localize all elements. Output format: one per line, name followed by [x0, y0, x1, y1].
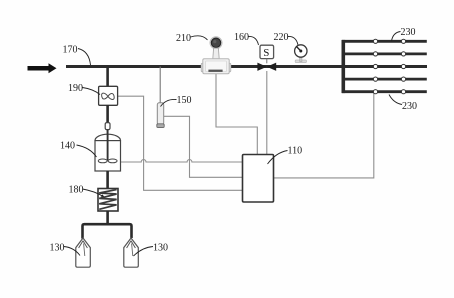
valve 160 body [257, 63, 276, 71]
manifold split to flasks [83, 224, 132, 238]
wire coil to manifold [106, 211, 109, 224]
svg-text:230: 230 [402, 101, 417, 112]
wire signal vessel140 to controller with hops [121, 160, 242, 162]
label 190 [68, 83, 100, 95]
wire pipe drop to probe 150 [159, 67, 161, 104]
svg-text:180: 180 [69, 185, 84, 196]
inlet flow arrow [28, 63, 57, 73]
wire valve190 to connector [106, 105, 109, 123]
svg-text:160: 160 [234, 32, 249, 43]
wire main pipe 170 [66, 65, 427, 68]
label 230 bottom [389, 95, 417, 113]
manifold header 230 [341, 40, 345, 93]
svg-text:130: 130 [50, 243, 65, 254]
wire signal valve160 to controller [266, 71, 268, 154]
nozzle nodes column 2 [401, 39, 405, 94]
label 180 [69, 185, 105, 198]
solenoid box S of valve 160 [260, 45, 274, 63]
valve 190 [99, 86, 118, 105]
vessel 140 with stirrer [95, 130, 121, 171]
wire pipe to valve 190 [106, 67, 109, 88]
branch pipe 3 [342, 65, 427, 68]
label 110 [268, 146, 303, 165]
label 160 [234, 32, 259, 45]
branch pipe 4 [342, 78, 427, 81]
connector nozzle above vessel [105, 123, 110, 130]
svg-text:150: 150 [177, 95, 192, 106]
svg-text:220: 220 [274, 32, 289, 43]
wire signal controller110 to manifold [274, 93, 374, 178]
flow meter 210 [201, 37, 231, 74]
controller 110 [243, 155, 274, 203]
label 210 [176, 33, 208, 44]
branch pipe 1 [342, 40, 427, 43]
coil 180 [98, 189, 118, 212]
wire signal probe150 to node [164, 116, 243, 177]
svg-text:140: 140 [60, 141, 75, 152]
branch pipe 5 [342, 90, 427, 93]
svg-text:130: 130 [153, 243, 168, 254]
label 170 [63, 45, 91, 66]
flask 130 left [76, 238, 91, 267]
svg-text:190: 190 [68, 83, 83, 94]
wire connector to vessel [107, 130, 109, 136]
wire signal flowmeter210 to controller [216, 74, 257, 154]
label 140 [60, 141, 97, 158]
label 150 [161, 95, 192, 107]
wire signal valve190 to node [118, 96, 243, 190]
branch pipe 2 [342, 53, 427, 56]
svg-text:110: 110 [288, 146, 303, 157]
flask 130 right [124, 238, 139, 267]
probe 150 [157, 103, 164, 128]
label 230 top [392, 27, 416, 41]
wire vessel to coil 180 [106, 171, 109, 189]
label 130 left [50, 243, 81, 256]
pressure gauge 220 [295, 45, 307, 63]
svg-text:170: 170 [63, 45, 78, 56]
label 130 right [134, 243, 169, 257]
nozzle nodes column 1 [373, 39, 377, 94]
svg-text:S: S [263, 47, 269, 59]
svg-text:210: 210 [176, 33, 191, 44]
label 220 [274, 32, 299, 45]
svg-text:230: 230 [401, 27, 416, 38]
